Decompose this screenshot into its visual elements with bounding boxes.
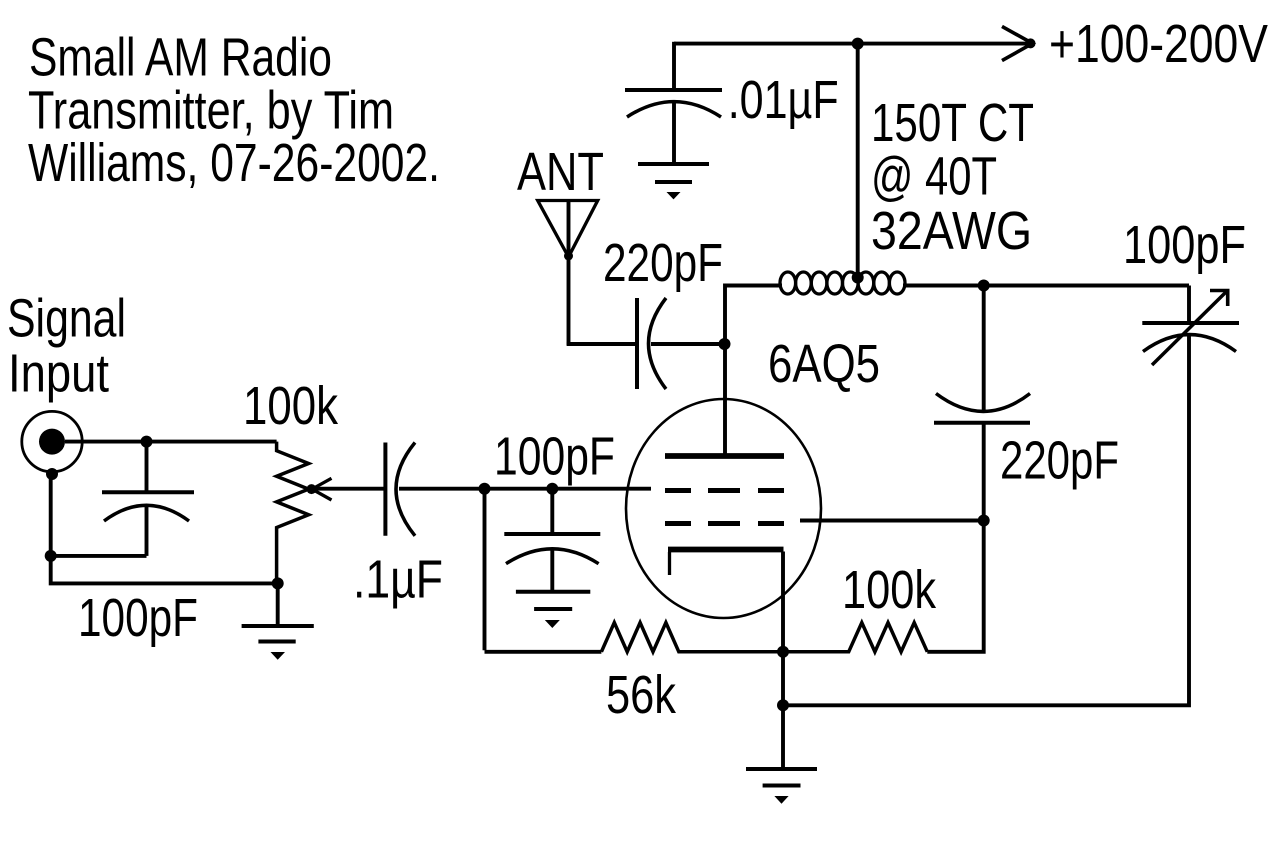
wire tank top right bbox=[903, 284, 1189, 288]
svg-text:.01µF: .01µF bbox=[728, 70, 839, 130]
node screen junction bbox=[978, 515, 990, 527]
tube 6AQ5 envelope bbox=[626, 399, 821, 618]
wire pot ground stem bbox=[276, 583, 280, 626]
resistor 56k bbox=[601, 623, 783, 652]
wire screen to right rail bbox=[800, 519, 984, 523]
tube grid g1 row bbox=[665, 521, 784, 526]
capacitor 100pF input bbox=[102, 442, 194, 556]
svg-text:Input: Input bbox=[8, 344, 109, 404]
svg-text:56k: 56k bbox=[606, 665, 677, 725]
capacitor .1uF coupling bbox=[385, 443, 415, 536]
capacitor 100pF variable bbox=[1142, 286, 1239, 366]
svg-text:6AQ5: 6AQ5 bbox=[768, 334, 880, 394]
ground (grid cap) bbox=[516, 592, 590, 628]
label 56k bbox=[606, 665, 677, 725]
wire ground stem bottom bbox=[781, 705, 785, 769]
node top rail junction bbox=[852, 38, 864, 50]
arrow B+ supply bbox=[1002, 26, 1036, 60]
label 100k (pot) bbox=[243, 376, 339, 436]
label ANT bbox=[517, 142, 604, 202]
label 100pF (input cap) bbox=[78, 588, 198, 648]
svg-text:+100-200V: +100-200V bbox=[1049, 14, 1268, 74]
wire left ground return bbox=[51, 471, 278, 583]
node pot bottom junction bbox=[272, 577, 284, 589]
svg-text:100pF: 100pF bbox=[494, 426, 615, 486]
label Signal Input bbox=[7, 289, 126, 404]
wire right rail lower bbox=[927, 423, 983, 652]
wire input cap bottom to left rail bbox=[51, 554, 147, 558]
wire input to pot bbox=[65, 440, 277, 444]
label .1uF bbox=[353, 550, 443, 610]
label 220pF (antenna cap) bbox=[603, 233, 723, 293]
label 100pF (grid cap) bbox=[494, 426, 615, 486]
wire tank left corner and plate lead bbox=[725, 286, 782, 457]
node grid wire junction 1 bbox=[479, 483, 491, 495]
title text bbox=[28, 28, 440, 194]
wire cathode lead bbox=[781, 552, 785, 706]
wire grid leak branch bbox=[485, 489, 602, 652]
svg-text:@ 40T: @ 40T bbox=[871, 147, 997, 207]
svg-text:150T CT: 150T CT bbox=[871, 93, 1034, 153]
potentiometer 100k bbox=[277, 442, 386, 584]
svg-text:.1µF: .1µF bbox=[353, 550, 443, 610]
node coil center tap bbox=[852, 272, 864, 284]
label 6AQ5 bbox=[768, 334, 880, 394]
label 100pF (variable cap) bbox=[1123, 215, 1246, 275]
wire grid input bbox=[399, 487, 651, 491]
node cathode junction bbox=[777, 646, 789, 658]
ground (.01uF) bbox=[638, 164, 709, 199]
tube plate bbox=[665, 453, 784, 459]
svg-text:32AWG: 32AWG bbox=[871, 201, 1032, 261]
svg-text:220pF: 220pF bbox=[603, 233, 723, 293]
ground (cathode circuit) bbox=[746, 769, 817, 804]
label 32AWG bbox=[871, 201, 1032, 261]
tube grid g2 row bbox=[665, 488, 784, 493]
svg-text:220pF: 220pF bbox=[1000, 431, 1119, 491]
node plate junction bbox=[719, 338, 731, 350]
label .01uF bbox=[728, 70, 839, 130]
svg-text:100pF: 100pF bbox=[78, 588, 198, 648]
svg-text:Small AM Radio: Small AM Radio bbox=[29, 28, 332, 88]
svg-text:Williams, 07-26-2002.: Williams, 07-26-2002. bbox=[28, 133, 440, 193]
label @ 40T bbox=[871, 147, 997, 207]
wire coupling cap to plate node bbox=[651, 342, 725, 346]
svg-text:Signal: Signal bbox=[7, 289, 126, 349]
inductor L1 150T coil bbox=[780, 272, 905, 294]
capacitor 100pF grid bbox=[504, 489, 600, 592]
svg-text:100k: 100k bbox=[243, 376, 339, 436]
svg-text:100pF: 100pF bbox=[1123, 215, 1246, 275]
wire B+ feed to coil center tap bbox=[856, 44, 860, 273]
wire right rail upper bbox=[982, 286, 986, 411]
svg-text:Transmitter, by Tim: Transmitter, by Tim bbox=[28, 81, 394, 141]
node left rail junction bbox=[45, 550, 57, 562]
wire variable cap down to bottom rail bbox=[783, 335, 1189, 706]
wire top rail B+ bbox=[674, 42, 1027, 46]
ground (pot) bbox=[242, 626, 314, 660]
capacitor 220pF antenna coupling bbox=[637, 298, 666, 389]
label 220pF (tank cap) bbox=[1000, 431, 1119, 491]
node tank right junction bbox=[978, 280, 990, 292]
node bottom junction bbox=[777, 699, 789, 711]
capacitor .01uF bbox=[625, 42, 722, 164]
svg-text:ANT: ANT bbox=[517, 142, 604, 202]
antenna bbox=[538, 201, 598, 346]
node input cap junction bbox=[141, 436, 153, 448]
connector signal input jack bbox=[22, 411, 82, 480]
label +100-200V bbox=[1049, 14, 1268, 74]
node grid wire junction 2 bbox=[546, 483, 558, 495]
tube cathode bbox=[668, 550, 784, 576]
wire antenna to coupling cap bbox=[567, 342, 637, 346]
label 150T CT bbox=[871, 93, 1034, 153]
svg-text:100k: 100k bbox=[842, 560, 937, 620]
resistor 100k (cathode to screen) bbox=[783, 623, 927, 652]
label 100k (plate resistor) bbox=[842, 560, 937, 620]
capacitor 220pF tank bbox=[934, 394, 1030, 423]
